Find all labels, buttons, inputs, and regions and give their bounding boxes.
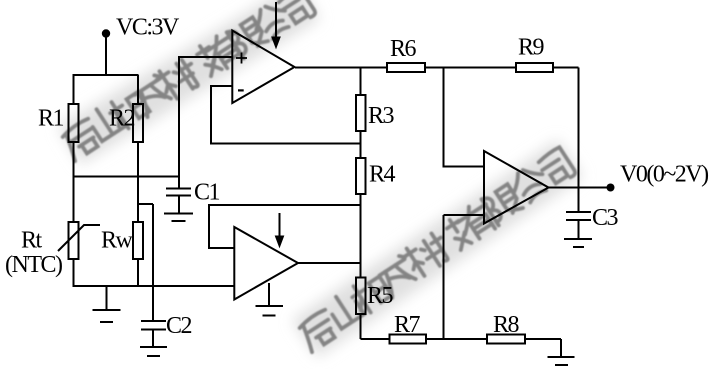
wire Rt bottom lead [73, 259, 75, 287]
thermistor Rt [69, 222, 79, 259]
resistor R7 [390, 335, 427, 344]
svg-text:C3: C3 [592, 205, 619, 231]
wire mid column top (R6/R9 node to op3 top input) [444, 67, 485, 167]
capacitor C2 [141, 321, 166, 330]
op-amp U2 arrow [279, 213, 281, 239]
wire Rt top lead [73, 177, 75, 222]
ground under C2 [140, 347, 167, 356]
op-amp U1 [232, 31, 294, 104]
resistor R2 [133, 104, 143, 142]
wire R1 top lead [73, 74, 75, 104]
resistor R9 [516, 63, 553, 72]
wire R4 bottom lead [360, 194, 362, 205]
resistor R3 [356, 95, 366, 131]
wire R7 rail left [361, 338, 390, 340]
svg-text:Rt: Rt [21, 228, 43, 254]
resistor R6 [387, 63, 425, 72]
wire R7 to R8 [426, 338, 487, 340]
wire mid column bottom (op3 low input to R7/R8 node) [444, 215, 485, 339]
svg-text:R6: R6 [390, 36, 417, 62]
wire op1 output [295, 67, 387, 69]
ground mid [93, 286, 121, 322]
wire R3 bottom lead [360, 131, 362, 144]
op-amp U3 [484, 151, 549, 224]
wire R3 top lead [360, 68, 362, 96]
wire rail node B [74, 285, 235, 287]
wire R8 right [525, 339, 561, 357]
wire R6 to R9 [425, 67, 516, 69]
svg-text:VC:3V: VC:3V [116, 15, 180, 41]
op-amp U1 arrow [275, 2, 277, 40]
ground under C3 [564, 239, 592, 247]
resistor R8 [487, 335, 525, 344]
wire C1 stem [178, 177, 180, 214]
wire R9 right down to output node [553, 68, 579, 188]
wire Rw bottom lead [137, 259, 139, 287]
resistor R1 [69, 104, 79, 142]
capacitor C1 [166, 189, 191, 196]
wire wiper tap [138, 204, 153, 321]
wire C3 stem [578, 188, 580, 213]
wire op2 output [298, 262, 361, 264]
wire R4 top lead [360, 144, 362, 159]
thermistor Rt NTC slash [58, 225, 100, 251]
svg-text:R8: R8 [493, 312, 520, 338]
svg-text:Rw: Rw [101, 228, 134, 254]
wire R1 bottom lead [73, 142, 75, 178]
wire rail node A [74, 176, 180, 178]
op-amp U2 [234, 227, 298, 300]
wire op1 minus loop [211, 86, 361, 144]
svg-text:R9: R9 [518, 35, 545, 61]
svg-text:R4: R4 [369, 162, 396, 188]
wire R2 bottom lead [137, 142, 139, 178]
ground after R8 [548, 357, 575, 365]
resistor R5 [356, 278, 366, 315]
wire C2 stem [152, 330, 154, 348]
wire Rw top lead [137, 177, 139, 222]
wire node R4-R5 vertical [360, 205, 362, 278]
svg-text:(NTC): (NTC) [5, 252, 62, 278]
op-amp U1 plus sign [236, 53, 247, 64]
svg-text:C2: C2 [166, 313, 192, 339]
wire C3 lower stem [578, 220, 580, 239]
ground under C1 [164, 214, 193, 222]
svg-text:R3: R3 [368, 103, 395, 129]
resistor R4 [356, 158, 366, 194]
watermark band 2 glyphs [296, 309, 341, 352]
svg-text:R7: R7 [394, 312, 421, 338]
svg-text:C1: C1 [194, 180, 220, 206]
wire R5 bottom lead [360, 314, 362, 339]
node V0 dot [607, 184, 615, 192]
capacitor C3 [566, 212, 591, 220]
node VC dot [102, 29, 110, 37]
watermark halo band 1 [58, 0, 583, 357]
watermark band 1 glyphs [59, 0, 577, 352]
wire op1 plus input vertical [179, 57, 233, 177]
svg-text:V0(0~2V): V0(0~2V) [620, 162, 708, 188]
wire R2 top lead [137, 75, 139, 105]
wire top rail [74, 74, 139, 76]
wire op3 output [549, 187, 608, 189]
wire op2 feedback loop [209, 205, 361, 248]
watermark halo band 2 [292, 140, 583, 358]
wire VC stem [105, 36, 107, 76]
resistor Rw [133, 222, 143, 259]
op-amp U1 minus sign [238, 89, 244, 91]
ground op2 [256, 283, 284, 316]
